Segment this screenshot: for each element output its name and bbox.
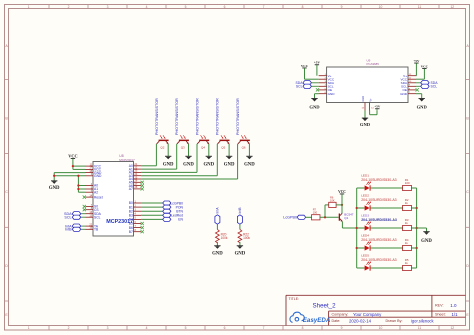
svg-text:3: 3	[107, 5, 109, 9]
svg-text:GND: GND	[183, 163, 194, 168]
svg-text:1k: 1k	[405, 261, 409, 265]
svg-text:GND: GND	[212, 251, 223, 256]
svg-text:Q5: Q5	[221, 146, 225, 150]
svg-text:D: D	[5, 264, 8, 268]
svg-text:9: 9	[341, 326, 343, 330]
svg-text:A7: A7	[129, 187, 133, 191]
svg-text:GND: GND	[203, 163, 214, 168]
svg-text:PHOTOTRANSISTOR: PHOTOTRANSISTOR	[236, 98, 240, 135]
svg-text:204-10SURD/S530-A3: 204-10SURD/S530-A3	[361, 238, 396, 242]
svg-text:PHOTOTRANSISTOR: PHOTOTRANSISTOR	[175, 98, 179, 135]
svg-text:204-10SURD/S530-A3: 204-10SURD/S530-A3	[361, 218, 397, 222]
svg-text:1: 1	[28, 326, 30, 330]
svg-text:SCL: SCL	[94, 215, 101, 219]
svg-text:Q6: Q6	[242, 146, 246, 150]
svg-text:SCL: SCL	[64, 216, 71, 220]
svg-text:GND: GND	[244, 163, 255, 168]
svg-text:10: 10	[379, 326, 383, 330]
svg-text:LcGPB0: LcGPB0	[283, 216, 297, 220]
svg-text:3: 3	[107, 326, 109, 330]
svg-text:VCC: VCC	[301, 64, 309, 68]
svg-text:PHOTOTRANSISTOR: PHOTOTRANSISTOR	[155, 98, 159, 135]
svg-text:PHOTOTRANSISTOR: PHOTOTRANSISTOR	[195, 98, 199, 135]
svg-text:+5V: +5V	[374, 105, 381, 109]
svg-text:A2: A2	[94, 190, 98, 194]
svg-text:EasyEDA: EasyEDA	[303, 317, 331, 324]
svg-text:SCL: SCL	[296, 85, 303, 89]
svg-text:C: C	[466, 190, 469, 194]
svg-text:GND: GND	[94, 174, 102, 178]
svg-text:GND: GND	[235, 251, 246, 256]
svg-text:12: 12	[450, 5, 454, 9]
svg-text:GND: GND	[224, 163, 235, 168]
svg-text:GND: GND	[421, 239, 432, 244]
svg-text:VCC: VCC	[338, 190, 346, 194]
svg-text:2: 2	[68, 5, 70, 9]
svg-text:Q3: Q3	[181, 146, 185, 150]
svg-text:5: 5	[185, 326, 187, 330]
svg-text:GND: GND	[417, 104, 428, 109]
svg-text:Sheet:: Sheet:	[435, 312, 446, 316]
svg-text:IntB: IntB	[238, 207, 242, 214]
svg-text:REV:: REV:	[435, 303, 443, 307]
svg-text:100: 100	[405, 181, 410, 185]
svg-text:1k: 1k	[405, 221, 409, 225]
svg-text:100k: 100k	[221, 236, 228, 240]
svg-text:IntA: IntA	[216, 207, 220, 214]
svg-text:GND: GND	[400, 92, 408, 96]
svg-text:9: 9	[341, 5, 343, 9]
svg-text:4: 4	[146, 326, 148, 330]
svg-text:1k: 1k	[405, 201, 409, 205]
svg-text:Q4: Q4	[201, 146, 205, 150]
svg-text:Your Company: Your Company	[353, 312, 382, 317]
svg-text:8: 8	[302, 326, 304, 330]
svg-text:IntB: IntB	[65, 228, 72, 232]
svg-text:100: 100	[313, 211, 318, 215]
svg-text:204-10SURD/S530-A3: 204-10SURD/S530-A3	[361, 178, 396, 182]
svg-text:Sheet_2: Sheet_2	[313, 302, 337, 309]
svg-text:4: 4	[146, 5, 148, 9]
svg-text:2020-02-14: 2020-02-14	[349, 318, 372, 323]
svg-text:Q2: Q2	[160, 146, 164, 150]
svg-text:VCC: VCC	[68, 153, 77, 158]
svg-text:2: 2	[68, 326, 70, 330]
svg-text:100k: 100k	[243, 236, 250, 240]
svg-text:Drawn By:: Drawn By:	[386, 319, 403, 323]
svg-text:V+: V+	[368, 98, 372, 102]
svg-text:7: 7	[263, 326, 265, 330]
svg-text:11: 11	[418, 326, 422, 330]
svg-text:GND: GND	[49, 186, 60, 191]
svg-text:VCC: VCC	[421, 64, 429, 68]
svg-text:D: D	[466, 264, 469, 268]
svg-text:GND: GND	[360, 122, 371, 127]
svg-text:C: C	[5, 190, 8, 194]
svg-text:Date:: Date:	[332, 319, 341, 323]
svg-text:Company:: Company:	[332, 312, 349, 316]
svg-text:GND: GND	[309, 104, 320, 109]
svg-text:1.0: 1.0	[450, 303, 457, 308]
svg-text:1/1: 1/1	[452, 312, 459, 317]
svg-text:SCL: SCL	[431, 85, 438, 89]
svg-text:8: 8	[302, 5, 304, 9]
svg-text:6: 6	[224, 326, 226, 330]
svg-text:PHOTOTRANSISTOR: PHOTOTRANSISTOR	[216, 98, 220, 135]
svg-text:PCA9685: PCA9685	[367, 62, 380, 66]
svg-text:GND: GND	[361, 96, 365, 102]
svg-text:204-10SURD/S530-A3: 204-10SURD/S530-A3	[361, 258, 396, 262]
svg-text:1: 1	[28, 5, 30, 9]
svg-text:1k: 1k	[405, 241, 409, 245]
svg-text:Reset: Reset	[94, 195, 103, 199]
svg-text:6: 6	[224, 5, 226, 9]
svg-text:5: 5	[185, 5, 187, 9]
svg-text:GND: GND	[328, 92, 336, 96]
svg-text:TITLE:: TITLE:	[289, 297, 300, 301]
svg-text:Q1: Q1	[344, 216, 348, 220]
svg-text:12: 12	[450, 326, 454, 330]
svg-text:B7: B7	[129, 230, 133, 234]
svg-text:+5V: +5V	[413, 59, 420, 63]
svg-text:10K: 10K	[330, 199, 335, 203]
svg-text:204-10SURD/S530-A3: 204-10SURD/S530-A3	[361, 198, 396, 202]
svg-text:MCP23017: MCP23017	[119, 158, 135, 162]
svg-text:GND: GND	[163, 163, 174, 168]
svg-text:igor.silenock: igor.silenock	[411, 318, 434, 323]
svg-text:EN: EN	[178, 218, 183, 222]
svg-text:7: 7	[263, 5, 265, 9]
svg-text:+5V: +5V	[314, 61, 321, 65]
svg-text:11: 11	[418, 5, 422, 9]
svg-text:10: 10	[379, 5, 383, 9]
